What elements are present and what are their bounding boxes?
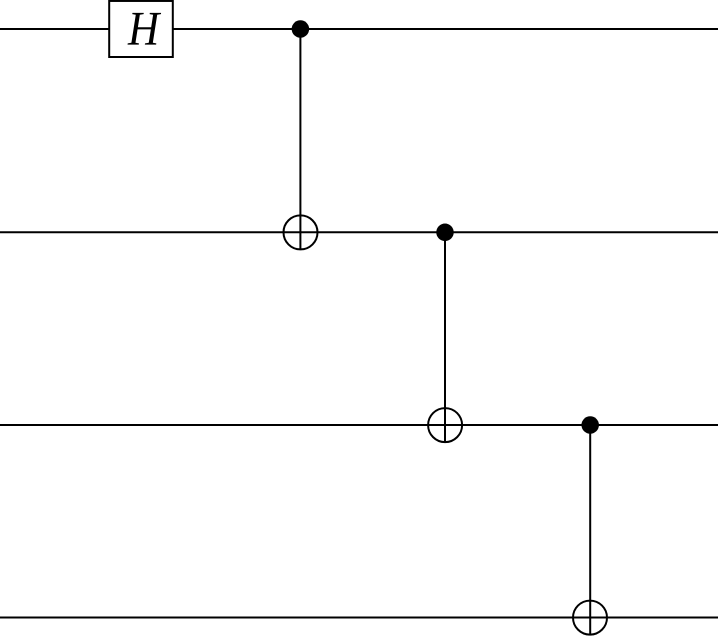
wire q1: [0, 231, 718, 233]
CNOT1 control dot: [292, 20, 310, 38]
wire CNOT2 vertical: [444, 232, 446, 442]
wire CNOT3 vertical: [589, 425, 591, 635]
CNOT2 control dot: [436, 224, 454, 242]
CNOT2 target: [428, 408, 462, 442]
wire q0: [0, 28, 718, 30]
wire q2: [0, 424, 718, 426]
gate H box: [109, 1, 173, 57]
CNOT1 target: [284, 215, 318, 249]
wire q3: [0, 617, 718, 619]
CNOT3 target: [573, 601, 607, 635]
wire CNOT1 vertical: [299, 29, 301, 249]
CNOT3 control dot: [581, 416, 599, 434]
gate H label: [128, 13, 162, 45]
